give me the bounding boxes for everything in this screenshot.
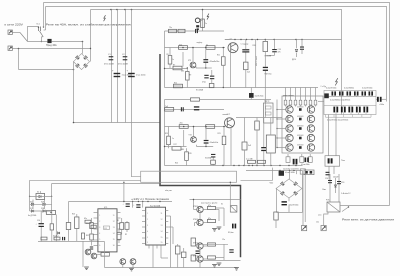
wire bridge left down [73,62,75,123]
wire drop left 2 [51,184,53,197]
capacitor chB C2 dark [194,106,199,107]
IC IC1 box [98,209,117,252]
svg-text:5: 5 [147,242,148,244]
node +14 [142,201,143,202]
svg-text:2 шт 5Вт: 2 шт 5Вт [246,158,253,160]
resistor chB R4 [167,136,171,145]
svg-text:R12: R12 [174,82,177,84]
capacitor bank bottom 2 [341,107,343,113]
wire out top rail [236,87,318,89]
pin IC1 right [117,234,121,236]
svg-text:диоды защиты: диоды защиты [283,95,295,97]
cap bank dark square [324,93,329,98]
wire chB left rail [164,100,166,166]
node railB [263,165,264,166]
dark component aux [279,171,284,176]
cap bank box [324,91,376,115]
wire bank down 2 [335,115,337,156]
wire filter drop 1 [111,10,113,123]
capacitor bank top 5 [362,91,364,95]
svg-text:MJ15003: MJ15003 [297,106,303,108]
wire top bus A [44,3,390,206]
wire vent drop 2 [324,212,328,226]
svg-text:62к: 62к [84,218,87,220]
svg-text:R5: R5 [167,54,169,56]
wire 14V drops [132,202,134,208]
resistor drv 4 [208,256,216,259]
svg-text:КТ815: КТ815 [193,206,198,208]
pin IC2 right [166,232,169,234]
svg-text:47мкФх16в: 47мкФх16в [210,141,219,144]
wire drop left 1 [29,180,31,196]
wire filter drop 3 [125,10,127,123]
svg-text:R20: R20 [253,45,256,47]
driver box left [264,103,274,123]
wire chA top row [165,30,225,32]
svg-text:0,1мкФ 630в: 0,1мкФ 630в [285,171,295,174]
resistor chA R7 [186,72,190,81]
svg-text:1к: 1к [205,23,207,25]
svg-text:10мк: 10мк [322,189,326,191]
connector X4 [321,226,326,231]
wire filter drop 4 [131,10,133,123]
svg-text:1: 1 [147,213,148,215]
svg-text:MJ15003: MJ15003 [297,125,303,127]
wire vent relay out [340,205,390,207]
wire supply rail mid [236,117,282,119]
capacitor CA2 [263,67,268,68]
svg-text:0,1мкФ 630в: 0,1мкФ 630в [326,87,336,90]
transistor chA VT1 [228,43,238,53]
svg-text:VT3: VT3 [188,60,191,62]
capacitor mid C1 [261,147,266,148]
switch vent [342,207,349,212]
svg-text:20к: 20к [179,44,182,46]
wire drv bus 2 [195,259,241,261]
svg-text:+100в: +100в [379,104,384,106]
capacitor bank top 1 [332,91,334,95]
capacitor bank top 4 [354,91,356,95]
capacitor +14 1 [126,203,130,204]
transistor ctrl 2 [130,259,136,265]
wire box drop [55,215,57,242]
ground drv 1 [212,228,217,230]
resistor rIC2 4 [191,255,196,261]
node railB [248,165,249,166]
svg-text:Реле вент. из датчика давления: Реле вент. из датчика давления [342,217,395,221]
lightning mark b [207,14,209,20]
connector X1 [8,30,12,34]
junction dark 1 [299,108,302,111]
svg-text:15: 15 [161,242,163,244]
wire bridge2 feed [289,171,291,180]
node +14 [159,201,160,202]
capacitor bank top 2 [339,91,341,95]
svg-text:Реле на 40А, включ. из стабили: Реле на 40А, включ. из стабилизатора нап… [46,23,132,27]
node bus C tap [110,9,112,11]
transistor drv 3 [197,243,203,249]
wire to relay [28,27,39,42]
capacitor bank right [377,97,379,102]
node railB [270,165,271,166]
node rail39 [257,39,258,40]
capacitor chA C6 electrolytic [203,59,208,60]
wire mid col [255,40,257,88]
capacitor bank bottom 3 [348,107,350,113]
wire fuse line [28,41,48,43]
svg-text:С16: С16 [37,220,40,222]
svg-text:VD5: VD5 [30,201,33,203]
svg-text:15: 15 [113,239,115,241]
svg-text:VT4: VT4 [189,135,192,137]
capacitor feed [326,172,330,173]
svg-text:0,1мкФ630в 0,1мкФ630в: 0,1мкФ630в 0,1мкФ630в [330,98,350,101]
node railB [238,165,239,166]
svg-text:какойКТ: какойКТ [223,113,231,116]
diode top right 2 [301,40,303,47]
wire aux top [246,170,303,172]
wire chB bottom rail [165,165,303,167]
svg-text:С20: С20 [325,178,328,180]
svg-text:470н 400В: 470н 400В [118,64,128,66]
relay K1 coil box [230,206,237,213]
svg-text:Д310: Д310 [292,59,296,61]
resistor mid ctrl 1 [120,223,124,230]
bridge rectifier VD2 [276,179,302,198]
junction dark 2 [299,118,302,121]
pin IC1 right [117,223,121,225]
wire bank left link [318,100,324,102]
svg-text:КС133А: КС133А [205,157,212,160]
wire chB verticals [168,127,170,137]
svg-text:подстр: подстр [264,101,269,103]
IC IC2 box [146,207,166,245]
pin IC1 right [117,245,121,247]
relay contact K1.1 [38,27,40,32]
wire link lower [52,183,160,185]
svg-text:6: 6 [99,245,100,247]
svg-text:13: 13 [161,225,163,227]
IC2 bottom pins [148,245,150,248]
svg-text:КТ815: КТ815 [193,256,198,258]
node bus C tap [124,9,126,11]
wire +14 rail [97,201,173,203]
node rail39 [240,39,241,40]
lightning mark 2 [335,78,338,85]
svg-text:VD2: VD2 [270,183,274,185]
relay coil K2 box [266,135,275,153]
svg-text:1к: 1к [172,138,174,140]
svg-text:R25: R25 [72,214,75,216]
transistor out L2 [286,115,293,122]
node railB [233,165,234,166]
svg-text:4х Д226Б: 4х Д226Б [28,215,37,217]
capacitor CA0 [272,49,277,50]
node railB [252,165,253,166]
svg-text:R21: R21 [218,133,221,135]
diode top right [296,40,298,49]
wire chA left rail [164,31,166,88]
wire gnd rail [105,267,237,269]
svg-text:5: 5 [99,239,100,241]
capacitor C4 electrolytic [128,73,135,74]
node rail39 [274,39,275,40]
transistor out L4 [286,134,293,141]
svg-text:12в: 12в [222,239,225,241]
capacitor C3 electrolytic [114,73,121,74]
wire bridge2 bottom [288,198,290,201]
pin IC1 right [117,239,121,241]
pin IC2 right [166,226,169,228]
wire chA bottom rail [165,87,237,89]
diode D4 [43,210,45,212]
svg-text:R19: R19 [189,153,192,155]
capacitor C16 [39,223,44,224]
wire link drop from filter [132,123,141,177]
svg-text:откл: откл [318,215,321,217]
resistor chA R4 [168,56,172,65]
pin IC2 left [142,243,146,245]
svg-text:КТ815: КТ815 [193,219,198,221]
pin IC2 right [166,215,169,217]
resistor chB R6 [172,147,181,151]
svg-text:R9: R9 [189,75,191,77]
wire neutral across [19,69,74,71]
capacitor out dark [293,159,295,165]
node railB [256,165,257,166]
pin IC1 right [117,228,121,230]
node railB [243,165,244,166]
pin IC2 right [166,210,169,212]
wires bottom misc [122,264,124,267]
diode D3 [31,210,33,212]
fuse FU1 [47,39,51,43]
capacitor vent 1 [328,180,332,181]
wire chB top row [165,109,225,111]
resistor chB R3 [206,125,215,129]
svg-text:Тбок: Тбок [341,160,345,162]
wire bridge2 left [276,189,278,213]
svg-text:14: 14 [161,231,163,233]
svg-text:11: 11 [161,213,163,215]
relay coil K1 top [195,18,200,23]
svg-text:VD7: VD7 [30,208,33,210]
svg-text:470н 400В: 470н 400В [104,64,114,66]
svg-text:2: 2 [147,219,148,221]
transistor out R4 [307,134,314,141]
resistor chB R2 [179,125,188,129]
svg-text:0,1мкФ 630в 0,1мкФ 630в: 0,1мкФ 630в 0,1мкФ 630в [327,118,348,121]
svg-text:2мк 400в 1мкФ 630в: 2мк 400в 1мкФ 630в [283,167,299,170]
resistor mid R1 [242,142,247,150]
svg-text:VD8: VD8 [41,208,44,210]
diode D2 [43,203,45,205]
resistor chB Rtop [191,98,200,101]
svg-text:MJ15003: MJ15003 [297,135,303,137]
svg-text:75к: 75к [169,27,172,29]
capacitor vent 2 [337,181,341,182]
svg-text:0,1мк 630в: 0,1мк 630в [301,164,310,166]
svg-text:R15: R15 [165,133,168,135]
transistor chA VT2 [190,62,196,68]
ground drv mini 1 [217,226,222,228]
ground drv mini 2 [217,262,222,264]
pin IC1 left [94,217,98,219]
svg-text:10мкФ: 10мкФ [333,176,339,179]
small box aux [300,169,305,174]
pin IC1 right [117,217,121,219]
svg-text:11: 11 [113,215,115,217]
transistor ctrl 1 [120,259,126,265]
resistor chB R1 [165,108,174,112]
resistor chA R8 [174,84,183,88]
svg-text:12: 12 [161,219,163,221]
wire diode rows [30,195,52,197]
wire shield bold [160,54,241,257]
capacitor dark mid [249,93,254,98]
wire link loop box [141,171,237,182]
wire vent left drop b [304,175,306,223]
wire down to bridge [82,42,84,54]
svg-text:47мк: 47мк [202,81,206,83]
svg-text:К1: К1 [221,204,223,206]
node rail39 [246,39,247,40]
wire link corner right [241,168,273,181]
wire drv link [223,244,225,260]
svg-text:555: 555 [104,228,107,230]
wire top bus B [46,7,387,102]
zener chB VD [211,154,215,155]
wire filter drop 2 [117,10,119,123]
small parts row [41,237,47,240]
svg-text:3: 3 [147,225,148,227]
pin IC1 left [94,223,98,225]
ground main [129,267,134,269]
transistor lowleft [85,249,91,255]
wire chA out [229,52,231,87]
svg-text:3: 3 [99,227,100,229]
svg-text:VD9: VD9 [341,182,344,184]
svg-text:4: 4 [147,231,148,233]
resistor aux row 2 [258,160,266,163]
transistor drv 2 [197,219,203,225]
bridge rectifier VD1 [74,54,90,70]
svg-text:3к3: 3к3 [248,145,251,147]
svg-text:MJ15003: MJ15003 [297,144,303,146]
wire K1 drop [229,182,231,205]
svg-text:R2: R2 [125,234,127,236]
svg-text:1к: 1к [172,59,174,61]
output board box [282,96,323,153]
wire out row 2 left [277,118,286,120]
resistor mid ctrl 3 [125,223,129,230]
wire box down 1 [328,166,330,179]
pin IC1 right [117,212,121,214]
wire out left bus [276,100,278,148]
lightning mark [104,15,106,21]
wire X1 [12,32,20,34]
node rail39 [295,39,296,40]
wire drv bus [195,243,228,245]
zener chA VD [204,75,208,76]
node fuse-bridge [82,41,84,43]
node +14 [123,201,124,202]
zener VD low [57,232,59,234]
resistor aux row 1 [248,160,256,163]
svg-text:К2: К2 [37,192,39,194]
transistor out R3 [307,125,314,132]
capacitor bank bottom 1 [333,107,335,113]
resistor chA R1b [178,29,185,32]
pin IC1 left [94,212,98,214]
svg-text:5: 5 [147,237,148,239]
connector X2 [8,46,12,50]
svg-text:R17: R17 [174,144,177,146]
svg-text:12в: 12в [316,222,319,224]
svg-text:680: 680 [181,71,184,73]
wire neutral down [18,49,20,70]
wire ctrl top [69,201,97,203]
capacitor bank top 6 [369,91,371,95]
transistor drv 1 [197,206,203,212]
svg-text:47к: 47к [208,218,211,220]
resistor ctrl R3 [85,220,91,223]
wire chA verticals [169,48,171,57]
svg-text:2: 2 [99,221,100,223]
svg-text:К1,0мк: К1,0мк [228,232,234,234]
svg-text:1 А обм 12: 1 А обм 12 [341,192,350,195]
ground lowleft [84,266,89,268]
node rail39 [265,39,266,40]
pin IC2 right [166,237,169,239]
svg-text:R32: R32 [86,235,89,237]
svg-text:IC2 4011Б: IC2 4011Б [150,205,161,207]
wire X2 line [12,48,90,50]
wire top bus C [91,10,342,115]
capacitor CA1 [242,49,249,50]
wire vent v2 [335,178,337,193]
node +14 [132,201,133,202]
resistor drv 3 [208,243,216,246]
component box mid [46,211,55,215]
wire zig down [82,241,84,267]
node railB [295,165,296,166]
wire vent left drop [302,175,304,226]
capacitor bank top 3 [347,91,349,95]
node railB [279,165,280,166]
svg-text:КС133А: КС133А [196,89,204,92]
svg-text:MJ15003: MJ15003 [297,116,303,118]
node railB [288,165,289,166]
transistor out L3 [286,125,293,132]
wire out row 5 left [277,147,286,149]
svg-text:0,1мкФ 630в: 0,1мкФ 630в [362,87,372,90]
wire +14 feed [123,182,125,201]
wire out row 3 left [277,128,286,130]
capacitor chB C6 [204,140,209,141]
junction dark 5 [299,146,302,149]
wire vent v1 [329,174,331,202]
capacitor C2 [123,56,128,57]
resistor chB R7 [185,152,189,161]
wire fuse to bridge [52,41,83,43]
resistor chA R5 [222,57,226,66]
svg-text:КТ815: КТ815 [193,243,198,245]
capacitor drv [232,224,234,229]
wire supply rail top [225,39,342,41]
capacitor aux C [282,201,287,202]
transistor chB VT2 [191,137,197,143]
